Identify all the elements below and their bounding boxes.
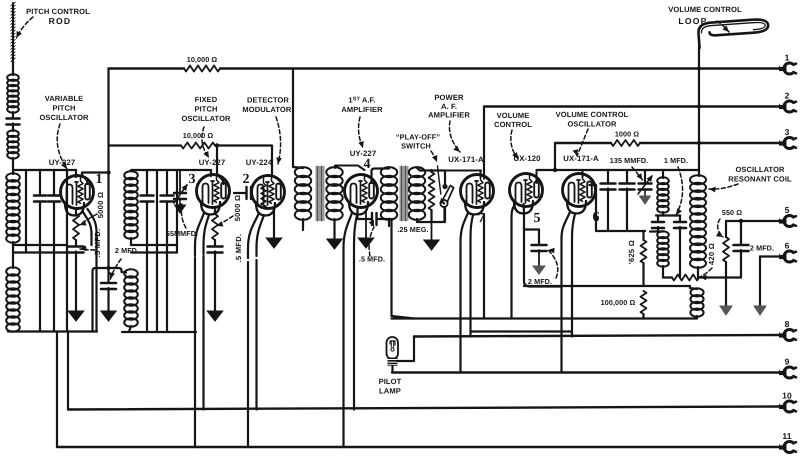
label .25 MEG [397,225,428,234]
wire tank2 vertical d [176,170,178,253]
resistor grid leak V3 [212,214,218,240]
wire plate4 to T2 [372,169,390,184]
svg-text:LAMP: LAMP [379,387,401,396]
wire bus line to terminal 1 [109,67,780,69]
antenna coil upper [7,74,19,112]
tube V2 [252,176,285,216]
wire [12,124,14,132]
ground below V4 [358,238,374,248]
svg-text:9: 9 [785,357,790,367]
wire terminal 6 lead [760,255,779,257]
wire grid1 to tank [75,170,77,177]
capacitor grid coupling V2 [234,187,252,199]
wire V2 heater right [255,260,257,410]
label 420 ohm [707,243,716,265]
label 1ST A.F. AMPLIFIER [341,96,383,115]
pilot lamp base [388,358,398,367]
arrow to loop [717,21,729,32]
arrow 5000 V1 [80,214,98,226]
wire plate6 stub [590,185,597,231]
arrow to UY-227 no1 [57,124,67,169]
svg-text:PILOT: PILOT [379,377,402,386]
svg-text:MODULATOR.: MODULATOR. [242,105,293,114]
arrow to UX-120 [511,130,518,159]
transformer T1 primary [295,167,311,220]
svg-text:8: 8 [785,319,790,329]
node t5 junction [739,219,743,223]
wire tank2 vertical a [146,170,148,332]
wire B+ left vertical [107,69,109,283]
wire 318 line [392,317,698,319]
capacitor .5MFD V4 [372,213,377,225]
terminal 1 [779,53,796,75]
svg-text:2 MFD.: 2 MFD. [115,246,139,255]
tube V5 leads [512,204,525,319]
wire .25meg ground stem [431,222,433,240]
tube V4 legs [344,213,358,258]
tube V1 legs [83,209,97,332]
label VOLUME CONTROL [494,111,532,129]
svg-text:PITCH: PITCH [53,104,76,113]
wire rod to coil [12,62,14,75]
wire coilE bottom [656,212,680,216]
label PILOT LAMP [379,377,402,396]
svg-text:5000 Ω: 5000 Ω [233,195,242,222]
label 7 [478,211,485,226]
arrow to UX-171-A no6 [573,129,588,156]
wire grid3 to tank2 [205,170,211,176]
node plate3 [215,143,219,147]
wire T1 primary bottom [302,219,304,230]
arrow to UY-227 no4 [358,117,363,148]
capacitor 2MFD right [734,221,749,278]
label 4 [363,157,370,172]
trimmer capacitor vc [638,170,653,194]
wire cathode3 [214,209,216,215]
wire tank2 mid tie 2 [131,251,177,253]
label 5000 ohm V3 [233,195,242,222]
label UY-227 tube3 [199,158,226,167]
wire tank2 coil joint [130,238,132,245]
svg-text:2: 2 [785,91,790,101]
svg-text:1 MFD.: 1 MFD. [664,156,688,165]
svg-text:OSCILLATOR: OSCILLATOR [39,113,89,122]
svg-text:6: 6 [785,241,790,251]
wire [75,240,77,245]
label 5 [533,211,540,226]
tube V1 [61,176,94,216]
label DETECTOR MODULATOR [242,96,293,115]
svg-text:CONTROL: CONTROL [494,120,532,129]
svg-text:2 MFD.: 2 MFD. [750,244,774,253]
wire tank top tie [13,169,76,171]
tube V4 [345,175,378,215]
terminal 6 [779,241,796,263]
wire coil H bottom [696,316,698,319]
label UY-227 tube1 [49,158,76,167]
arrow 2MFD left [109,259,121,279]
wire antenna to tank [12,158,14,174]
label .5 MFD V4 [359,255,385,264]
resistor 1000 ohm [611,140,640,146]
ground below 2MFD left [101,311,116,321]
svg-text:UX-120: UX-120 [513,154,541,163]
svg-text:11: 11 [782,431,791,441]
label UX-171-A tube6 [563,154,599,163]
svg-text:“PLAY-OFF”: “PLAY-OFF” [396,133,440,142]
wire bus line to terminal 3 [555,142,779,144]
transformer T2 secondary [409,167,425,220]
wire tank vertical d [66,170,68,332]
wire [75,252,77,312]
ground below V2 [266,238,282,248]
tube V7 legs [461,213,474,252]
wire T1 secondary top to grid4 [335,166,365,171]
capacitor 2MFD left [101,283,116,289]
label PITCH CONTROL [26,7,90,16]
resistor 550 ohm [723,221,729,278]
label 1 MFD [664,156,688,165]
label 2 MFD right [750,244,774,253]
label 135 MMFD [610,156,648,165]
wire resonant coil bottom [697,267,699,278]
label .5 MFD V3 [234,234,243,263]
wire V3 heater right [202,256,204,410]
trimmer capacitor 55MMFD [174,170,188,203]
svg-text:DETECTOR: DETECTOR [247,96,289,105]
node B+ tank2 junction [106,266,110,270]
volume control loop antenna [698,19,770,48]
svg-text:POWER: POWER [434,93,464,102]
tube V6 legs [562,212,576,244]
svg-text:OSCILLATOR: OSCILLATOR [181,114,231,123]
wire tank vertical a [25,170,27,253]
wire cathode2 [273,209,275,239]
capacitor vc-b [620,170,635,231]
tube V2 screen grid [261,178,266,207]
antenna coil lower [7,130,19,158]
svg-text:420 Ω: 420 Ω [707,243,716,265]
capacitor tank2 a [141,196,154,202]
label 5000 ohm V1 [96,192,105,219]
wire 2MFD box top stub [524,228,539,230]
arrow 1MFD [676,167,683,215]
wire [107,288,109,311]
wire cathode4 coupling [358,209,372,220]
arrow .5MFD V1 [80,246,95,252]
arrow to UX-171-A no7 [449,121,460,152]
wire loop drop [698,46,700,176]
svg-text:PITCH: PITCH [195,105,218,114]
resistor .25 MEG [429,170,435,222]
label 550 ohm [722,208,742,217]
wire V7 heater right [469,250,471,337]
svg-text:VOLUME: VOLUME [497,111,530,120]
terminal 5 [779,205,796,227]
wire V2 heater left [247,262,249,447]
wire lamp tip to line9 [391,366,393,373]
svg-text:5: 5 [785,205,790,215]
svg-text:UX-171-A: UX-171-A [563,154,599,163]
terminal 3 [779,127,796,149]
ground below 550 [720,306,732,315]
tube V3 legs [195,213,209,256]
label UX-120 tube5 [513,154,541,163]
wire V3 heater left [194,258,196,447]
wire [12,112,14,117]
wire tie C to coil H [690,286,697,289]
wire L2 drop [483,107,485,319]
wire tank bottom tie [8,330,97,332]
arrow 5000 V3 [217,216,234,227]
ground below V3 [207,311,223,321]
svg-text:10,000 Ω: 10,000 Ω [187,55,218,64]
svg-text:UY-224: UY-224 [246,158,273,167]
terminal 9 [779,357,796,379]
label VARIABLE PITCH OSCILLATOR [39,94,89,122]
svg-text:.25 MEG.: .25 MEG. [397,225,428,234]
wire tie B [596,230,645,232]
tube V5 [510,174,543,214]
label PLAY-OFF SWITCH [396,133,440,151]
svg-text:3: 3 [188,172,195,187]
capacitor vc-a [601,170,616,231]
terminal 8 [779,319,796,341]
resistor grid leak V1 [73,214,79,240]
svg-text:SWITCH: SWITCH [401,142,431,151]
wire tie C [524,285,690,287]
resistor 10,000 ohm lower [181,143,215,149]
wire V7 heater left [459,252,461,373]
wire T2 secondary bottom tie [417,208,445,222]
wire [214,240,216,245]
label LOOP [678,16,707,26]
capacitor grid V3 [208,247,223,253]
wire tank2 top tie [131,169,205,171]
label 2 MFD left [115,246,139,255]
tube V6 [563,174,596,214]
terminal 10 [779,391,796,412]
wire terminal 5 lead [726,220,779,222]
wire T2 secondary top tie [417,168,445,171]
wire cathode1 [75,209,77,215]
svg-text:VOLUME CONTROL: VOLUME CONTROL [556,110,629,119]
wire heater drop left [56,332,58,448]
osc coil H [690,288,703,316]
label 10,000 ohm lower [183,131,214,140]
tube V3 [197,175,230,215]
arrow to switch [431,151,437,162]
capacitor grid V1 [69,247,84,253]
tank2 coil top [124,171,138,239]
osc coil E [657,170,669,213]
svg-text:RESONANT COIL: RESONANT COIL [728,175,792,184]
svg-text:1: 1 [95,172,102,187]
capacitor antenna series [7,119,20,125]
svg-text:OSCILLATOR: OSCILLATOR [567,120,617,129]
capacitor 1MFD b [674,216,686,278]
resistor 625 ohm [641,231,647,286]
svg-text:10: 10 [782,391,792,401]
wire lamp side to line8 [398,337,415,362]
wire tank2 mid tie 1 [131,244,177,246]
wire bus line 11 [57,446,779,448]
wire [214,252,216,312]
ground below terminal6 [754,306,766,315]
capacitor tank b [34,196,46,202]
wire tank vertical c [53,170,55,332]
svg-text:55MMFD.: 55MMFD. [166,229,198,238]
label UX-171-A tube7 [448,155,484,164]
label 55MMFD [166,229,198,238]
wire [377,219,415,319]
wire bus line 10 [68,407,779,410]
junction dots loop drop [697,66,701,145]
wire filament tie [471,330,573,332]
label 625 ohm [627,240,636,264]
wire terminal6 drop [759,257,761,307]
transformer T1 core [316,166,325,221]
svg-text:UX-171-A: UX-171-A [448,155,484,164]
ground below 2MFD V5 [533,266,545,274]
label UY-224 tube2 [246,158,273,167]
arrow .5MFD V4 [369,220,374,256]
wire V4 heater right [353,256,355,410]
wire tie 420 [663,276,741,278]
tube V2 legs [248,213,264,258]
ground small below trimmer [175,198,186,213]
label FIXED PITCH OSCILLATOR [181,95,231,123]
wire 2MFD box left [524,228,561,287]
label UY-227 tube4 [350,149,377,158]
arrow 2MFD V5 [548,248,558,278]
wire grid7 riser [480,171,482,178]
arrow to rod [17,17,34,38]
wire T1 secondary bottom [333,219,335,239]
svg-text:'625 Ω: '625 Ω [627,240,636,264]
wire coilF bottom [662,266,664,278]
svg-text:2: 2 [242,172,249,187]
tube V7 [461,175,494,215]
wire volume top tie [537,169,699,171]
wire tank mid tie 1 [13,244,67,246]
wire V6 heater right [571,244,573,337]
label 1000 ohm [615,130,639,139]
wire bus line 9 [392,371,779,373]
arrow to UY-224 [276,117,282,164]
wire tank2 vertical b [156,170,158,332]
switch play-off [438,166,454,222]
svg-text:1ST A.F.: 1ST A.F. [348,96,375,105]
wire tank2 vertical c [166,170,168,332]
arrow 420 [700,268,712,280]
ground small below vc trimmer [640,189,651,204]
resistor 10,000 ohm (plate feed, upper) [184,66,220,72]
wire plate1 riser [82,173,109,185]
svg-text:100,000 Ω: 100,000 Ω [601,298,636,307]
ground below T1 [327,239,342,249]
label VOLUME CONTROL OSCILLATOR [556,110,629,129]
wire V4 heater left [342,258,344,447]
pilot lamp bulb [387,337,399,359]
wire B+ to tank2 lower coil [93,268,127,332]
svg-text:ROD: ROD [49,16,72,26]
label OSCILLATOR RESONANT COIL [728,165,792,184]
svg-text:VOLUME CONTROL: VOLUME CONTROL [668,5,742,14]
svg-text:135 MMFD.: 135 MMFD. [610,156,648,165]
svg-text:2 MFD.: 2 MFD. [528,277,552,286]
resistor 420 ohm [672,275,699,281]
wire heater drop right [67,332,69,410]
svg-text:1000 Ω: 1000 Ω [615,130,639,139]
label .5 MFD V1 [93,229,102,258]
arrow to UY-227 no3 [202,127,209,158]
svg-text:PITCH CONTROL: PITCH CONTROL [26,7,90,16]
wire T1 primary feed [293,69,303,169]
node L3 drop [553,168,557,172]
plate feed line 10,000 [109,146,273,177]
terminal 11 [779,431,796,452]
ground below V1 [68,311,84,321]
svg-text:UY-227: UY-227 [49,158,76,167]
label 6 [592,210,599,225]
svg-text:5: 5 [533,211,540,226]
arrow to resonant coil [709,184,738,192]
tank coil L1a [6,173,20,243]
wire T2 primary bottom stub [388,219,390,226]
wire coil joint [12,242,14,268]
wire cathode4 ground stem [365,212,367,238]
label 3 [188,172,195,187]
capacitor 2MFD V5 [532,230,547,267]
capacitor tank c [48,196,60,202]
transformer T1 secondary [326,167,342,220]
oscillator resonant coil [690,175,706,268]
wire plate5 riser [536,170,538,183]
label 1 [95,172,102,187]
pitch control rod antenna [11,2,15,62]
svg-text:550 Ω: 550 Ω [722,208,742,217]
svg-text:VARIABLE: VARIABLE [45,94,84,103]
label 100,000 ohm [601,298,636,307]
svg-text:OSCILLATOR: OSCILLATOR [735,165,785,174]
svg-text:AMPLIFIER: AMPLIFIER [428,111,470,120]
wire V6 heater left [560,244,562,373]
svg-text:AMPLIFIER: AMPLIFIER [341,105,383,114]
svg-text:.5 MFD.: .5 MFD. [359,255,385,264]
wire top tie power block [445,170,481,172]
tank2 coil bottom [124,269,138,331]
svg-text:4: 4 [363,157,370,172]
label 2 MFD V5 [528,277,552,286]
label ROD [49,16,72,26]
label 10,000 ohm upper [187,55,218,64]
node B+ tap [106,170,110,174]
wire tank vertical b [39,170,41,332]
wire bus line 8 [414,335,779,337]
transformer T2 core [400,166,409,221]
arrow 55MMFD [177,203,186,228]
capacitor tank2 c [161,196,174,202]
label VOLUME CONTROL top [668,5,742,14]
wire tank mid tie 2 [13,251,67,253]
wire plate3 riser [217,146,224,185]
wire grid6 riser [582,170,584,177]
terminal 2 [779,91,796,113]
svg-text:UY-227: UY-227 [199,158,226,167]
svg-text:1: 1 [785,53,790,63]
svg-text:.5 MFD.: .5 MFD. [234,234,243,263]
